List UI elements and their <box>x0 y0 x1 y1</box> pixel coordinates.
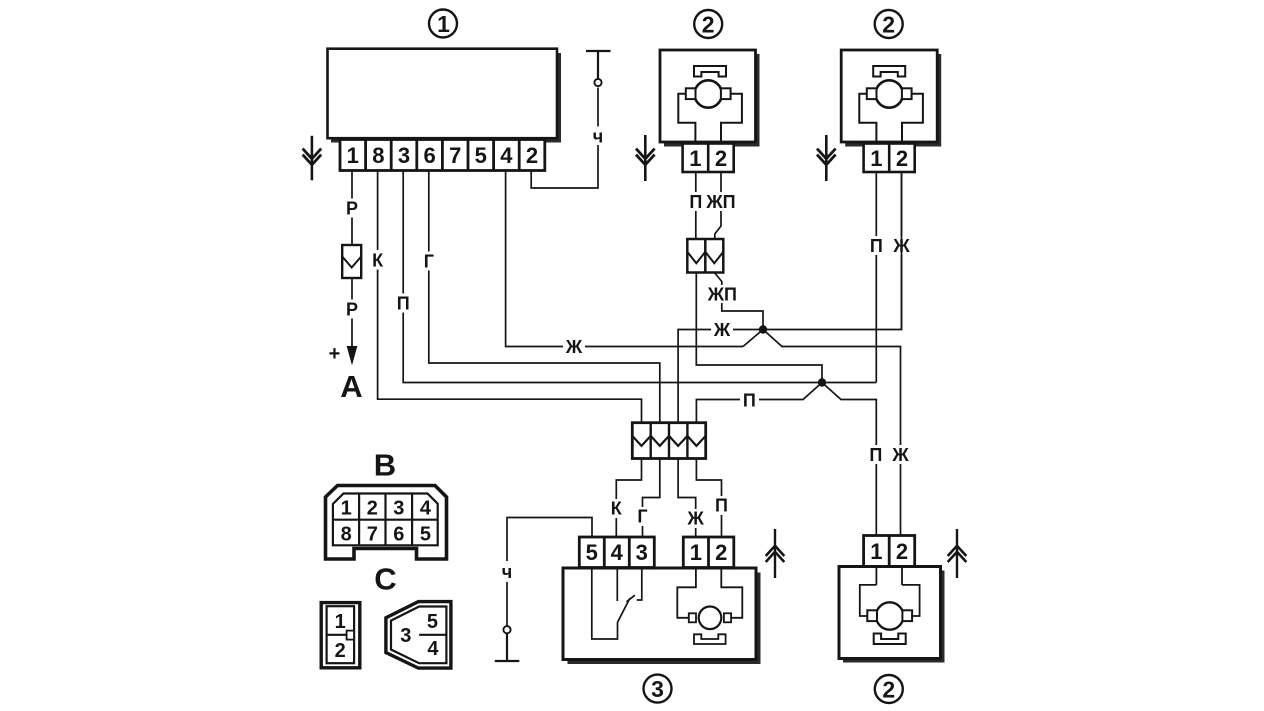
wire P junction to upper pump M2 <box>822 382 876 384</box>
svg-text:3: 3 <box>398 143 410 168</box>
wire ch to U2 pin 5 <box>507 518 592 627</box>
connector C2 inner cells <box>391 607 446 664</box>
M3 motor circle <box>876 602 903 629</box>
M1 brush tabs <box>686 88 731 99</box>
svg-text:2: 2 <box>882 676 895 702</box>
svg-text:2: 2 <box>526 143 538 168</box>
wire P below X2 to U2 pin 2 <box>696 459 721 538</box>
ground symbol at U1 <box>303 136 322 181</box>
wire P from M2 pin 1 <box>875 172 877 383</box>
U2 switch fixed contact pin 3 <box>637 568 642 601</box>
U2 motor housing outline <box>677 568 742 618</box>
U2 switch fixed contact pin 4 <box>616 568 618 602</box>
svg-text:4: 4 <box>420 497 432 519</box>
svg-text:К: К <box>372 251 384 271</box>
svg-text:Ж: Ж <box>713 320 731 340</box>
U2 circled label 3 <box>644 675 672 703</box>
svg-text:Г: Г <box>424 252 434 272</box>
svg-text:1: 1 <box>335 611 346 633</box>
M3 brush tabs <box>867 610 912 621</box>
svg-text:3: 3 <box>393 497 404 519</box>
single-pin connector symbol (circle and bar) left <box>495 626 520 661</box>
svg-text:4: 4 <box>427 638 439 660</box>
svg-text:1: 1 <box>437 11 450 37</box>
wire P from M1 pin 1 <box>695 172 697 239</box>
component U1 wiper relay box <box>328 49 562 143</box>
connector B cell grid <box>333 494 438 546</box>
svg-text:Ж: Ж <box>687 509 705 529</box>
U2 switch blade <box>618 595 635 622</box>
label P on branch <box>740 390 759 410</box>
svg-text:8: 8 <box>372 143 384 168</box>
washer pump M3 pin squares 1 2 <box>864 536 915 567</box>
U2 motor circle <box>699 607 722 630</box>
wire P from U1 pin 3 <box>403 171 822 383</box>
svg-text:ЖП: ЖП <box>707 285 737 305</box>
svg-text:5: 5 <box>420 524 431 546</box>
wire Zh branch right diagonal to lower pump <box>763 330 901 536</box>
svg-text:2: 2 <box>367 497 378 519</box>
svg-text:ч: ч <box>593 127 603 147</box>
M2 top bracket <box>873 66 905 77</box>
svg-text:7: 7 <box>449 143 461 168</box>
2-way connector block X1 <box>687 239 723 273</box>
U2 bottom bracket <box>694 634 726 644</box>
svg-text:5: 5 <box>427 611 438 633</box>
svg-text:5: 5 <box>586 540 598 565</box>
svg-text:П: П <box>870 236 883 256</box>
wire P from U1 pin 1 <box>351 171 353 246</box>
connector B outline <box>326 486 447 560</box>
arrow to node A <box>347 347 356 364</box>
ground symbol at M2 <box>817 135 836 181</box>
wire G from U1 pin 6 <box>429 171 660 423</box>
washer pump M1 circled label 2 <box>694 10 722 38</box>
svg-text:+: + <box>329 343 341 365</box>
wire P from X1 to junction <box>696 273 822 383</box>
single-pin connector symbol (circle and bar) <box>586 51 611 86</box>
connector C1 inner cell <box>327 606 355 663</box>
U2 pin squares 5 4 3 <box>579 537 654 568</box>
svg-text:2: 2 <box>896 146 908 171</box>
svg-text:Р: Р <box>346 199 358 219</box>
wire P branch right diagonal to lower pump <box>822 383 876 536</box>
svg-text:К: К <box>611 499 623 519</box>
ground symbol at M3 <box>948 529 967 578</box>
svg-text:3: 3 <box>636 540 648 565</box>
wire P branch left diagonal to block <box>696 383 822 423</box>
svg-text:2: 2 <box>715 540 727 565</box>
wire Zh from U1 pin 4 <box>506 171 743 347</box>
wire Zh horizontal bus <box>678 172 901 423</box>
svg-text:2: 2 <box>335 640 346 662</box>
svg-text:1: 1 <box>690 540 702 565</box>
svg-text:3: 3 <box>651 676 664 702</box>
svg-text:1: 1 <box>689 146 701 171</box>
M2 motor circle <box>876 80 903 107</box>
svg-text:1: 1 <box>347 143 359 168</box>
svg-text:П: П <box>869 445 882 465</box>
M1 top bracket <box>694 66 726 77</box>
svg-text:3: 3 <box>400 625 411 647</box>
wire ZhP from M1 pin 2 <box>715 172 721 239</box>
wire ch from U1 pin 2 <box>531 88 598 189</box>
svg-text:А: А <box>340 369 362 404</box>
wire K below X2 to U2 pin 4 <box>616 459 641 538</box>
ground symbol at U2 <box>766 529 785 578</box>
washer pump M1 box <box>660 50 760 147</box>
label Zh on wire <box>563 337 585 357</box>
label Zh lower <box>890 445 912 465</box>
svg-text:1: 1 <box>870 146 882 171</box>
connector C1 outline <box>321 603 360 668</box>
connector C2 pin numbers <box>400 611 439 660</box>
wire K from U1 pin 8 <box>378 171 642 423</box>
svg-text:7: 7 <box>367 524 378 546</box>
junction node Zh <box>759 325 767 333</box>
svg-text:2: 2 <box>896 539 908 564</box>
wire ZhP below X1 <box>714 273 763 330</box>
washer pump M2 box <box>841 50 941 147</box>
U2 limit switch contact from pin 5 <box>592 568 618 640</box>
svg-text:С: С <box>374 562 396 597</box>
svg-text:5: 5 <box>475 143 487 168</box>
single-pin connector on wire P <box>342 245 361 278</box>
svg-text:ЖП: ЖП <box>705 192 735 212</box>
svg-text:П: П <box>715 496 728 516</box>
M1 housing outline <box>678 94 742 144</box>
connector C2 outline <box>386 602 451 669</box>
wire G below X2 to U2 pin 3 <box>643 459 660 538</box>
svg-text:6: 6 <box>423 143 435 168</box>
M2 brush tabs <box>867 88 912 99</box>
svg-text:Ж: Ж <box>891 445 909 465</box>
svg-text:ч: ч <box>502 562 512 582</box>
wire Zh branch left diagonal <box>743 330 763 347</box>
M1 motor circle <box>695 80 722 107</box>
svg-text:2: 2 <box>882 11 895 37</box>
connector B pin numbers <box>341 497 432 545</box>
wire P below connector <box>351 278 353 347</box>
U2 pin squares 1 2 <box>683 537 734 568</box>
svg-text:8: 8 <box>341 524 352 546</box>
label Zh on bus <box>711 320 733 340</box>
washer pump M2 circled label 2 <box>875 10 903 38</box>
junction node P <box>818 378 826 386</box>
component U1 circled label 1 <box>429 10 457 38</box>
svg-text:П: П <box>397 294 410 314</box>
M2 housing outline <box>859 94 923 144</box>
ground symbol at M1 <box>636 135 655 181</box>
svg-text:Г: Г <box>637 507 647 527</box>
M3 housing outline <box>860 585 920 616</box>
M2 pin squares 1 2 <box>864 144 915 173</box>
label P lower <box>867 445 886 465</box>
wiper motor unit U2 box <box>563 568 761 664</box>
svg-text:П: П <box>743 390 756 410</box>
svg-text:2: 2 <box>715 146 727 171</box>
svg-text:В: В <box>374 448 396 483</box>
svg-text:4: 4 <box>500 143 513 168</box>
wire Zh below X2 to U2 pin 1 <box>678 459 696 538</box>
M3 circled label 2 <box>875 675 903 703</box>
connector C1 pin numbers <box>335 611 346 662</box>
washer pump M3 box <box>839 567 945 663</box>
svg-text:Р: Р <box>346 300 358 320</box>
svg-text:4: 4 <box>611 540 624 565</box>
U1 connector pin row: pins 1 8 3 6 7 5 4 2 <box>340 140 545 171</box>
svg-text:1: 1 <box>870 539 882 564</box>
svg-text:Ж: Ж <box>565 337 583 357</box>
svg-text:2: 2 <box>702 11 715 37</box>
M1 pin squares 1 2 <box>683 144 734 173</box>
U2 brush tabs <box>689 613 731 622</box>
svg-text:6: 6 <box>393 524 404 546</box>
svg-text:П: П <box>689 192 702 212</box>
svg-text:1: 1 <box>341 497 352 519</box>
4-way connector block X2 <box>632 423 705 459</box>
wire Zh from M2 pin 2 <box>901 172 903 330</box>
M3 pin stubs redrawn over box <box>876 567 902 585</box>
M3 bottom bracket <box>874 634 906 645</box>
